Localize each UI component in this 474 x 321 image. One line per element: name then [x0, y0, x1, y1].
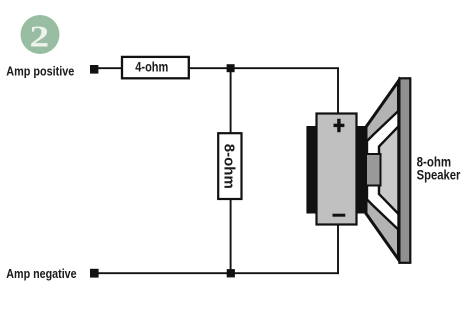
svg-text:Amp negative: Amp negative: [6, 266, 76, 281]
svg-text:Amp positive: Amp positive: [6, 63, 74, 78]
svg-text:4-ohm: 4-ohm: [135, 59, 168, 75]
svg-text:8-ohm: 8-ohm: [221, 144, 237, 189]
svg-text:Speaker: Speaker: [417, 166, 461, 182]
svg-text:2: 2: [29, 18, 49, 53]
